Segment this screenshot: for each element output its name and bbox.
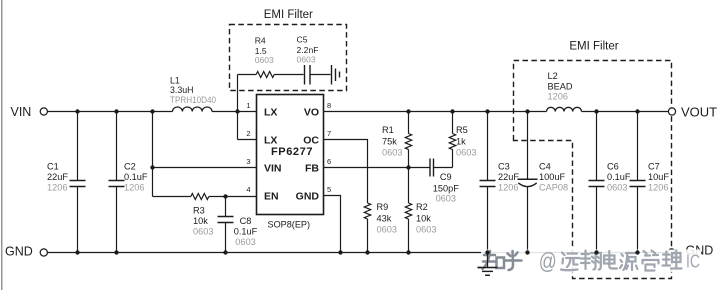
wire R4 left [238, 74, 257, 76]
svg-text:22uF: 22uF [47, 172, 68, 182]
svg-text:1206: 1206 [47, 183, 67, 193]
left border line [1, 0, 3, 290]
terminal GND left [40, 249, 47, 256]
svg-text:C3: C3 [498, 162, 510, 172]
svg-text:0603: 0603 [456, 148, 476, 158]
svg-text:0603: 0603 [235, 237, 255, 247]
node VOUT-C4 [525, 109, 529, 113]
svg-text:FP6277: FP6277 [271, 146, 313, 158]
svg-text:1206: 1206 [548, 92, 568, 102]
wire pin2 wire [238, 139, 257, 141]
wire C6 bottom [596, 187, 598, 253]
wire LX node vertical [237, 75, 239, 140]
svg-text:0603: 0603 [607, 183, 627, 193]
wire R2 bottom [408, 219, 410, 253]
node VOUT-C7 [635, 109, 639, 113]
node EN-C8 [223, 194, 227, 198]
capacitor C6 [589, 180, 605, 182]
node GND-C4 [525, 250, 529, 254]
svg-text:R1: R1 [382, 125, 394, 135]
wire C2 bottom [116, 187, 118, 253]
watermark background [481, 250, 701, 273]
node VIN-C2 [114, 109, 118, 113]
svg-text:1: 1 [246, 101, 250, 110]
wire C9 right [434, 167, 453, 169]
wire R9 bottom [367, 219, 369, 253]
svg-text:0.1uF: 0.1uF [124, 172, 148, 182]
svg-text:@: @ [539, 248, 557, 274]
svg-text:4: 4 [246, 185, 250, 194]
watermark text 远翔电源管理 [561, 251, 682, 271]
svg-text:R4: R4 [255, 36, 266, 46]
wire C7 top [637, 112, 639, 181]
svg-text:SOP8(EP): SOP8(EP) [268, 219, 311, 230]
svg-text:10uF: 10uF [648, 172, 669, 182]
svg-text:VIN: VIN [11, 105, 32, 119]
svg-text:EN: EN [264, 190, 279, 202]
node LX node [235, 109, 239, 113]
resistor R2 [405, 203, 411, 219]
svg-text:150pF: 150pF [433, 184, 459, 194]
node GND-C1 [75, 250, 79, 254]
terminal GND right [668, 249, 675, 256]
resistor R1 [405, 134, 411, 150]
svg-text:6: 6 [327, 157, 331, 166]
wire C4 top [527, 112, 529, 180]
node GND-C2 [114, 250, 118, 254]
svg-text:8: 8 [327, 101, 331, 110]
svg-text:7: 7 [327, 129, 331, 138]
svg-text:L2: L2 [548, 71, 558, 81]
svg-text:100uF: 100uF [539, 172, 565, 182]
wire C8 bottom [225, 223, 227, 253]
svg-text:C7: C7 [648, 162, 660, 172]
node VOUT-C6 [594, 109, 598, 113]
node VIN pin tap [150, 165, 154, 169]
wire VIN rail to pin1 [212, 111, 257, 113]
node GND-pin5 [338, 250, 342, 254]
svg-text:GND: GND [296, 190, 320, 202]
node GND-C7 [635, 250, 639, 254]
svg-text:VIN: VIN [264, 162, 282, 174]
svg-text:0603: 0603 [193, 227, 213, 237]
wire VIN branch vertical [152, 112, 154, 197]
svg-text:R2: R2 [416, 202, 428, 212]
svg-text:0.1uF: 0.1uF [234, 227, 258, 237]
resistor R9 [364, 203, 370, 219]
wire R2 top [408, 168, 410, 204]
earth ground (bottom) [487, 253, 489, 268]
capacitor C9 [429, 159, 431, 177]
svg-text:0603: 0603 [382, 148, 402, 158]
node GND-C3 [485, 250, 489, 254]
svg-text:GND: GND [5, 245, 33, 259]
wire C2 top [116, 112, 118, 181]
node GND-C3 (over watermark) [485, 250, 489, 254]
node VOUT-C3 [485, 109, 489, 113]
EMI filter box (right) [513, 61, 672, 279]
wire C5 to earth [310, 74, 331, 76]
wire OC to R9 [324, 140, 368, 204]
wire C1 top [77, 112, 79, 181]
node GND-R2 [406, 250, 410, 254]
capacitor C8 [218, 216, 234, 218]
node VIN-C1 [75, 109, 79, 113]
node GND-C6 (over watermark) [594, 250, 598, 254]
svg-text:1k: 1k [456, 136, 466, 146]
svg-text:C1: C1 [47, 162, 59, 172]
svg-text:LX: LX [264, 106, 277, 118]
svg-text:2: 2 [246, 129, 250, 138]
wire GND pin wire [324, 196, 341, 253]
wire R5 top [452, 112, 454, 134]
capacitor C3 [480, 180, 496, 182]
wire VOUT rail 2 [582, 111, 669, 113]
svg-text:75k: 75k [382, 136, 397, 146]
svg-text:VO: VO [304, 106, 319, 118]
wire R4 to C5 [274, 74, 303, 76]
svg-text:C5: C5 [297, 34, 308, 44]
svg-text:43k: 43k [377, 213, 392, 223]
svg-text:5: 5 [327, 185, 331, 194]
capacitor C5 [304, 65, 306, 85]
resistor R5 [449, 134, 455, 150]
wire VOUT rail 1 [324, 111, 547, 113]
svg-text:IC: IC [686, 252, 700, 272]
svg-text:R3: R3 [193, 206, 205, 216]
inductor L1 [173, 107, 213, 112]
svg-text:OC: OC [303, 134, 319, 146]
inductor L2 BEAD [547, 107, 582, 111]
wire GND rail [47, 252, 668, 254]
node GND-C7 (over watermark) [635, 250, 639, 254]
wire C6 top [596, 112, 598, 181]
svg-text:1206: 1206 [648, 183, 668, 193]
wire R1 bottom [408, 150, 410, 168]
node VOUT-R1 [406, 109, 410, 113]
svg-text:EMI Filter: EMI Filter [264, 9, 313, 21]
svg-text:EMI Filter: EMI Filter [569, 40, 618, 52]
svg-text:VOUT: VOUT [681, 105, 717, 120]
svg-text:0603: 0603 [255, 55, 274, 65]
earth ground (bottom, over watermark) [487, 253, 489, 268]
svg-text:C2: C2 [124, 162, 136, 172]
capacitor C2 [109, 180, 125, 182]
terminal VOUT [668, 108, 675, 115]
svg-text:0603: 0603 [377, 224, 397, 234]
capacitor C1 [70, 180, 86, 182]
terminal VIN [40, 108, 47, 115]
svg-text:0603: 0603 [297, 54, 316, 64]
svg-text:1206: 1206 [498, 183, 518, 193]
svg-text:R9: R9 [377, 202, 389, 212]
svg-text:0603: 0603 [436, 194, 456, 204]
wire C3 top [487, 112, 489, 181]
svg-text:1206: 1206 [124, 183, 144, 193]
wire C4 bottom [527, 187, 529, 253]
node GND-R9 [365, 250, 369, 254]
svg-text:LX: LX [264, 134, 277, 146]
EMI filter box (top) [230, 25, 347, 91]
svg-text:3.3uH: 3.3uH [170, 85, 193, 95]
wire C7 bottom [637, 187, 639, 253]
capacitor C7 [630, 180, 646, 182]
node VIN-branch [150, 109, 154, 113]
IC U1 FP6277 (SOP8) [257, 95, 324, 215]
wire VIN pin wire [153, 167, 257, 169]
svg-text:CAP08: CAP08 [539, 183, 568, 193]
svg-text:C4: C4 [539, 162, 551, 172]
svg-text:C8: C8 [240, 216, 252, 226]
wire C8 top [225, 197, 227, 217]
node GND-C4 (over watermark) [525, 250, 529, 254]
wire R3 left [153, 196, 191, 198]
svg-text:C6: C6 [607, 162, 619, 172]
wire C3 bottom [487, 187, 489, 253]
wire R5 bottom [452, 150, 454, 168]
svg-text:3: 3 [246, 157, 250, 166]
wire VIN rail left [47, 111, 172, 113]
svg-text:10k: 10k [416, 213, 431, 223]
node FB node [406, 165, 410, 169]
node GND-C6 [594, 250, 598, 254]
watermark text 知乎 [483, 251, 522, 270]
svg-text:BEAD: BEAD [548, 81, 573, 91]
svg-text:C9: C9 [440, 172, 452, 182]
svg-text:R5: R5 [456, 125, 468, 135]
svg-text:0603: 0603 [416, 224, 436, 234]
svg-text:22uF: 22uF [498, 172, 519, 182]
node VOUT-R5 [450, 109, 454, 113]
wire R1 top [408, 112, 410, 134]
svg-text:TPRH10D40: TPRH10D40 [170, 95, 216, 105]
svg-text:10k: 10k [193, 216, 208, 226]
wire FB wire [324, 167, 430, 169]
earth ground (EMI top) [331, 65, 333, 85]
node GND-C8 [223, 250, 227, 254]
wire C1 bottom [77, 187, 79, 253]
resistor R3 [191, 194, 209, 200]
resistor R4 [256, 72, 274, 78]
svg-text:FB: FB [305, 162, 319, 174]
capacitor C4 (polarized) [518, 178, 538, 180]
svg-text:0.1uF: 0.1uF [607, 172, 631, 182]
wire R3 right to EN [209, 196, 257, 198]
